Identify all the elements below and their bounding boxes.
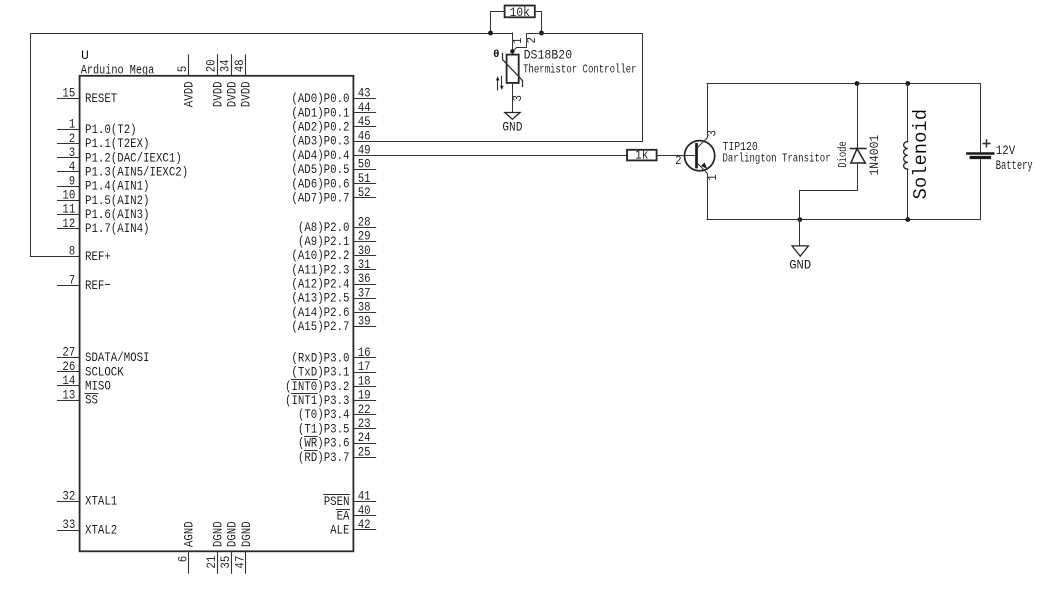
svg-text:DGND: DGND: [239, 521, 254, 547]
svg-text:(AD2)P0.2: (AD2)P0.2: [291, 120, 349, 135]
svg-text:(WR)P3.6: (WR)P3.6: [298, 436, 350, 451]
svg-text:44: 44: [358, 100, 371, 115]
svg-text:(A13)P2.5: (A13)P2.5: [291, 291, 349, 306]
svg-text:35: 35: [218, 556, 233, 569]
svg-text:2: 2: [524, 37, 539, 44]
svg-text:P1.2(DAC/IEXC1): P1.2(DAC/IEXC1): [85, 150, 182, 165]
svg-text:45: 45: [358, 114, 371, 129]
svg-text:(A14)P2.6: (A14)P2.6: [291, 305, 349, 320]
svg-text:47: 47: [233, 556, 248, 569]
svg-text:26: 26: [62, 359, 75, 374]
svg-text:P1.5(AIN2): P1.5(AIN2): [85, 193, 150, 208]
svg-text:(INT1)P3.3: (INT1)P3.3: [285, 393, 350, 408]
svg-text:DGND: DGND: [225, 521, 240, 547]
svg-text:23: 23: [358, 416, 371, 431]
svg-text:EA: EA: [337, 508, 350, 523]
svg-text:1N4001: 1N4001: [867, 135, 882, 176]
svg-text:(AD6)P0.6: (AD6)P0.6: [291, 176, 349, 191]
svg-text:DVDD: DVDD: [210, 81, 225, 107]
svg-text:1: 1: [510, 37, 525, 44]
svg-text:43: 43: [358, 86, 371, 101]
svg-text:3: 3: [69, 145, 76, 160]
svg-text:7: 7: [69, 273, 76, 288]
svg-text:DVDD: DVDD: [224, 81, 239, 107]
svg-text:(RD)P3.7: (RD)P3.7: [298, 450, 350, 465]
svg-text:21: 21: [204, 556, 219, 569]
svg-text:P1.0(T2): P1.0(T2): [85, 122, 137, 137]
svg-text:(AD7)P0.7: (AD7)P0.7: [291, 191, 349, 206]
svg-text:33: 33: [62, 517, 75, 532]
svg-text:REF−: REF−: [85, 278, 111, 293]
svg-text:24: 24: [358, 430, 371, 445]
svg-text:38: 38: [358, 300, 371, 315]
svg-text:RESET: RESET: [85, 91, 117, 106]
svg-text:22: 22: [358, 402, 371, 417]
svg-text:P1.4(AIN1): P1.4(AIN1): [85, 179, 150, 194]
svg-text:39: 39: [358, 314, 371, 329]
svg-text:16: 16: [358, 345, 371, 360]
svg-text:2: 2: [675, 153, 682, 168]
svg-text:52: 52: [358, 185, 371, 200]
svg-text:(A12)P2.4: (A12)P2.4: [291, 277, 349, 292]
svg-text:Solenoid: Solenoid: [910, 109, 932, 200]
svg-text:2: 2: [69, 131, 76, 146]
svg-text:XTAL1: XTAL1: [85, 494, 117, 509]
svg-text:DVDD: DVDD: [239, 81, 254, 107]
svg-text:37: 37: [358, 285, 371, 300]
svg-text:5: 5: [175, 66, 190, 73]
svg-text:P1.6(AIN3): P1.6(AIN3): [85, 207, 150, 222]
svg-text:48: 48: [232, 59, 247, 72]
svg-text:GND: GND: [789, 258, 811, 272]
svg-text:36: 36: [358, 271, 371, 286]
svg-text:17: 17: [358, 359, 371, 374]
svg-text:18: 18: [358, 373, 371, 388]
svg-text:41: 41: [358, 488, 371, 503]
svg-text:(A9)P2.1: (A9)P2.1: [298, 234, 350, 249]
svg-text:(AD1)P0.1: (AD1)P0.1: [291, 105, 349, 120]
svg-text:25: 25: [358, 444, 371, 459]
svg-text:27: 27: [62, 345, 75, 360]
svg-text:6: 6: [175, 556, 190, 563]
svg-text:51: 51: [358, 171, 371, 186]
svg-text:11: 11: [62, 202, 75, 217]
svg-text:42: 42: [358, 517, 371, 532]
svg-text:(INT0)P3.2: (INT0)P3.2: [285, 379, 350, 394]
svg-text:XTAL2: XTAL2: [85, 523, 117, 538]
svg-text:(A8)P2.0: (A8)P2.0: [298, 220, 350, 235]
svg-text:(AD0)P0.0: (AD0)P0.0: [291, 91, 349, 106]
svg-text:10k: 10k: [510, 5, 530, 20]
svg-text:31: 31: [358, 257, 371, 272]
svg-text:12: 12: [62, 216, 75, 231]
svg-text:(AD3)P0.3: (AD3)P0.3: [291, 134, 349, 149]
svg-text:32: 32: [62, 488, 75, 503]
svg-text:40: 40: [358, 503, 371, 518]
svg-text:ALE: ALE: [330, 523, 349, 538]
svg-text:20: 20: [204, 59, 219, 72]
svg-text:SS: SS: [85, 393, 98, 408]
svg-text:DGND: DGND: [210, 521, 225, 547]
svg-text:(TxD)P3.1: (TxD)P3.1: [291, 365, 349, 380]
svg-text:MISO: MISO: [85, 379, 111, 394]
svg-text:(RxD)P3.0: (RxD)P3.0: [291, 350, 349, 365]
svg-text:10: 10: [62, 188, 75, 203]
svg-text:REF+: REF+: [85, 249, 111, 264]
svg-text:13: 13: [62, 387, 75, 402]
svg-text:P1.1(T2EX): P1.1(T2EX): [85, 136, 150, 151]
svg-text:Thermistor Controller: Thermistor Controller: [523, 62, 637, 76]
svg-text:1k: 1k: [635, 148, 648, 163]
svg-text:Battery: Battery: [996, 158, 1033, 173]
svg-text:AVDD: AVDD: [182, 81, 197, 107]
svg-text:P1.3(AIN5/IEXC2): P1.3(AIN5/IEXC2): [85, 165, 188, 180]
svg-text:19: 19: [358, 388, 371, 403]
svg-text:GND: GND: [502, 121, 522, 135]
svg-text:3: 3: [704, 130, 719, 137]
svg-text:(T0)P3.4: (T0)P3.4: [298, 407, 350, 422]
svg-text:29: 29: [358, 229, 371, 244]
svg-text:15: 15: [62, 85, 75, 100]
svg-text:Arduino Mega: Arduino Mega: [81, 63, 155, 78]
svg-text:U: U: [81, 48, 89, 63]
svg-text:(T1)P3.5: (T1)P3.5: [298, 421, 350, 436]
svg-text:SDATA/MOSI: SDATA/MOSI: [85, 350, 150, 365]
svg-text:12V: 12V: [996, 143, 1016, 158]
svg-text:30: 30: [358, 243, 371, 258]
svg-text:34: 34: [218, 59, 233, 72]
svg-text:Darlington Transitor: Darlington Transitor: [723, 152, 831, 166]
svg-text:(A15)P2.7: (A15)P2.7: [291, 319, 349, 334]
svg-text:1: 1: [69, 117, 76, 132]
svg-text:50: 50: [358, 157, 371, 172]
svg-text:1: 1: [705, 174, 720, 181]
svg-text:AGND: AGND: [182, 521, 197, 547]
svg-text:DS18B20: DS18B20: [524, 48, 573, 63]
svg-text:(AD5)P0.5: (AD5)P0.5: [291, 162, 349, 177]
svg-text:SCLOCK: SCLOCK: [85, 364, 124, 379]
svg-text:(A11)P2.3: (A11)P2.3: [291, 262, 349, 277]
svg-text:Diode: Diode: [836, 141, 850, 168]
svg-text:P1.7(AIN4): P1.7(AIN4): [85, 221, 150, 236]
svg-text:28: 28: [358, 215, 371, 230]
svg-text:9: 9: [69, 173, 76, 188]
svg-text:θ: θ: [493, 49, 499, 61]
svg-text:14: 14: [62, 373, 75, 388]
svg-text:(AD4)P0.4: (AD4)P0.4: [291, 148, 349, 163]
svg-text:4: 4: [69, 159, 76, 174]
svg-text:(A10)P2.2: (A10)P2.2: [291, 248, 349, 263]
svg-text:PSEN: PSEN: [324, 494, 350, 509]
